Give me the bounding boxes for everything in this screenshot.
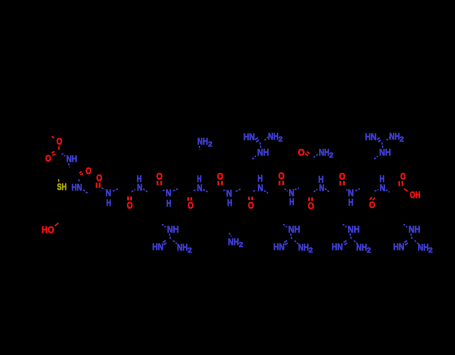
svg-text:N: N <box>380 183 386 194</box>
svg-text:HO: HO <box>42 225 55 236</box>
bond stub O-phenyl <box>55 223 59 226</box>
bond stub N8-alphaC8 <box>264 191 268 194</box>
svg-text:2: 2 <box>400 137 404 144</box>
bond stub N9-alphaC9 <box>295 188 299 190</box>
atom NH2 guanidine amine (Arg up) <box>268 132 283 144</box>
svg-text:O: O <box>298 148 305 159</box>
bond stub N10-alphaC10 <box>325 189 330 192</box>
bond stub C-NH2 guanidine <box>294 241 298 244</box>
svg-text:NH: NH <box>66 154 77 165</box>
bond stub C-N1 (blue dashes) <box>62 153 66 156</box>
bond stub NH-C guanidine vertical <box>169 234 170 239</box>
C6=O double-bond dashes vertical <box>218 181 222 185</box>
bond stub C8-N9 <box>285 189 288 192</box>
svg-text:2: 2 <box>278 137 282 144</box>
bond stub C-OH <box>404 189 408 192</box>
atom NH2 guanidine amine (Arg down) <box>418 242 433 254</box>
bond stub CH2-N Lys6 <box>229 233 232 237</box>
bond stub C10-N11 <box>346 189 348 192</box>
atom NH2 guanidine amine (Arg down) <box>177 242 192 254</box>
svg-text:O: O <box>369 200 375 211</box>
bond stub C1-N2 vertical <box>79 179 80 181</box>
svg-text:HN: HN <box>273 242 284 253</box>
svg-text:O: O <box>156 171 162 182</box>
bond stub C3-N4 <box>132 189 136 191</box>
svg-text:O: O <box>248 200 254 211</box>
svg-text:O: O <box>86 166 92 177</box>
C3=O double-bond dashes vertical <box>128 197 131 201</box>
C7=O double-bond dashes vertical <box>249 197 252 200</box>
bond stub C7-N8 <box>253 190 256 192</box>
C=N double-bond dashes guanidine <box>377 138 381 142</box>
bond stub NH-C guanidine vertical <box>381 143 384 149</box>
svg-text:O: O <box>45 154 51 165</box>
atom NH2 guanidine amine (Arg down) <box>356 242 371 254</box>
C10=O double-bond dashes vertical <box>340 181 344 185</box>
C=N double-bond dashes guanidine <box>163 241 167 245</box>
bond stub C2-N3 <box>102 188 105 190</box>
bond stub N7-alphaC7 <box>236 189 241 192</box>
bond stub O-C(=O) vertical <box>58 146 61 149</box>
bond stub NH-C guanidine vertical <box>259 143 262 149</box>
C=N double-bond dashes guanidine <box>344 241 348 245</box>
bond stub N2-alphaC2 <box>83 190 88 194</box>
bond stub C-NH2 guanidine <box>173 241 177 244</box>
bond stub N6-alphaC6 <box>203 190 208 192</box>
bond stub N1-alphaC1 <box>68 163 69 167</box>
C8=O double-bond dashes vertical <box>280 181 284 185</box>
bond stub chain-NH (Arg down) <box>343 224 347 227</box>
bond stub N11-alphaC11 <box>356 189 360 191</box>
bond stub C9-N10 <box>314 189 318 192</box>
bond stub N12-alphaC12 <box>386 190 390 193</box>
svg-text:HN: HN <box>393 242 404 253</box>
svg-text:NH: NH <box>418 242 429 253</box>
svg-text:NH: NH <box>257 148 269 159</box>
svg-text:2: 2 <box>208 141 212 148</box>
C4=O double-bond dashes vertical <box>158 181 162 185</box>
bond stub C11-N12 <box>375 189 379 191</box>
svg-text:HN: HN <box>243 132 255 143</box>
bond stub C6-N7 <box>223 190 226 191</box>
C11=O double-bond dashes slanted <box>370 197 375 200</box>
svg-text:O: O <box>127 201 133 212</box>
svg-text:NH: NH <box>356 242 367 253</box>
svg-text:NH: NH <box>268 132 279 143</box>
bond stub CH2-S <box>58 179 60 182</box>
C5=O double-bond dashes vertical <box>188 197 191 200</box>
svg-text:OH: OH <box>410 190 421 201</box>
bond stub NH-C guanidine vertical <box>350 234 351 239</box>
svg-text:H: H <box>348 197 353 208</box>
svg-text:NH: NH <box>298 242 309 253</box>
svg-text:HN: HN <box>152 242 163 253</box>
bond stub N-CH2 Lys5 <box>198 146 201 150</box>
bond stub C5-N6 <box>194 189 197 191</box>
svg-text:NH: NH <box>319 147 330 158</box>
svg-text:NH: NH <box>197 136 208 147</box>
bond stub chain-NH (Arg down) <box>162 224 166 227</box>
bond stub C-NH2 guanidine <box>415 241 419 244</box>
bond stub C4-N5 <box>163 190 166 191</box>
svg-text:H: H <box>166 198 171 209</box>
svg-text:2: 2 <box>188 247 192 254</box>
bond stub NH-C guanidine vertical <box>291 234 292 239</box>
svg-text:O: O <box>188 201 194 212</box>
svg-text:HN: HN <box>332 242 343 253</box>
svg-text:2: 2 <box>329 152 333 159</box>
bond stub chain-NH (Arg up) <box>252 156 256 159</box>
bond stub N5-alphaC5 <box>173 189 178 191</box>
C=N double-bond dashes guanidine <box>404 241 408 245</box>
svg-text:H: H <box>289 197 294 208</box>
svg-text:2: 2 <box>367 247 371 254</box>
bond stub N4-alphaC4 <box>143 189 147 192</box>
svg-text:SH: SH <box>57 182 67 193</box>
carbamate C=O double-bond dashes <box>52 152 56 156</box>
svg-text:2: 2 <box>309 247 313 254</box>
svg-text:N: N <box>137 182 142 193</box>
bond stub chain-NH (Arg up) <box>374 156 378 159</box>
atom NH2 guanidine amine (Arg down) <box>298 242 313 254</box>
bond stub C-NH2 guanidine <box>387 137 391 141</box>
svg-text:O: O <box>57 137 63 148</box>
svg-text:NH: NH <box>379 148 391 159</box>
svg-text:HN: HN <box>365 132 377 143</box>
atom NH2 epsilon-amine Lys6 <box>228 237 243 249</box>
bond stub tBu-O (red dash) <box>52 136 54 138</box>
bond stub C-NH2 guanidine <box>265 137 269 141</box>
svg-text:H: H <box>106 198 111 209</box>
C=N double-bond dashes guanidine <box>255 138 259 142</box>
svg-text:2: 2 <box>428 247 432 254</box>
C1=O double-bond dashes <box>79 172 83 176</box>
svg-text:O: O <box>278 171 284 182</box>
Gln9 C=O double-bond dashes <box>305 152 309 156</box>
svg-text:NH: NH <box>177 242 188 253</box>
svg-text:O: O <box>217 171 223 182</box>
svg-text:NH: NH <box>228 237 239 248</box>
bond stub chain-NH (Arg down) <box>403 224 407 227</box>
svg-text:O: O <box>400 171 406 182</box>
svg-text:O: O <box>96 173 102 184</box>
atom NH2 guanidine amine (Arg up) <box>389 132 404 144</box>
svg-text:N: N <box>258 183 264 194</box>
svg-text:N: N <box>319 183 324 194</box>
svg-text:O: O <box>308 201 314 212</box>
bond stub chain-NH (Arg down) <box>283 224 287 227</box>
svg-text:2: 2 <box>239 242 243 249</box>
atom NH2 epsilon-amine Lys5 <box>197 136 212 148</box>
bond stub C-NH2 guanidine <box>354 241 358 244</box>
C2=O double-bond dashes vertical <box>97 183 100 188</box>
bond stub NH-C guanidine vertical <box>411 234 412 239</box>
svg-text:O: O <box>339 171 345 182</box>
atom NH2 amide Gln9 <box>319 147 334 159</box>
bond stub N3-alphaC3 <box>113 189 118 191</box>
C=N double-bond dashes guanidine <box>284 241 288 245</box>
svg-text:N: N <box>197 183 202 194</box>
COOH C=O double-bond dashes <box>399 181 403 186</box>
C9=O double-bond dashes vertical <box>309 197 312 201</box>
svg-text:NH: NH <box>389 132 400 143</box>
svg-text:H: H <box>227 198 232 209</box>
bond stub C-NH2 Gln9 <box>314 154 319 158</box>
svg-text:HN: HN <box>72 182 83 193</box>
